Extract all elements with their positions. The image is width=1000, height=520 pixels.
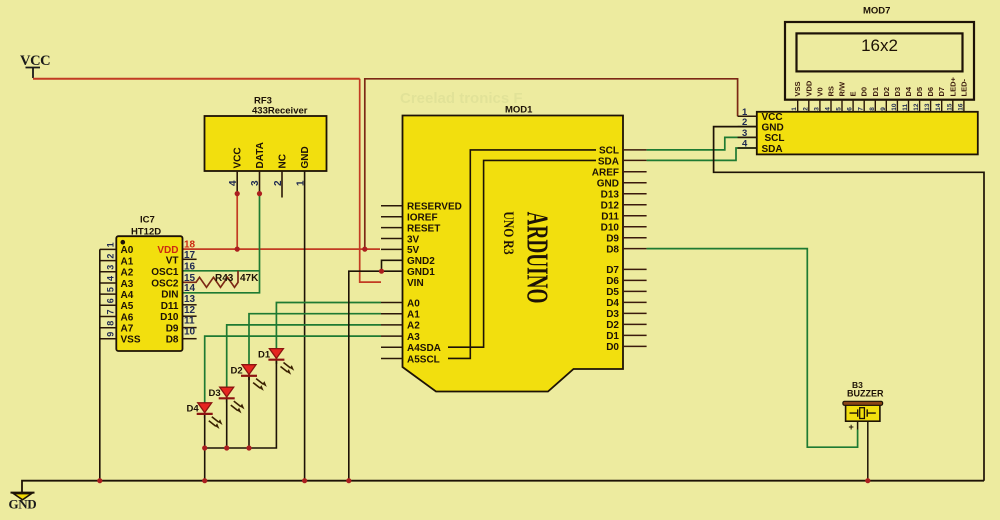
svg-text:GND: GND	[300, 146, 311, 168]
adapter labels	[762, 112, 785, 155]
wire VDD 5V line	[183, 248, 381, 250]
wire LCD GND return	[714, 127, 984, 481]
svg-text:VDD: VDD	[804, 80, 813, 96]
svg-text:R43: R43	[215, 273, 234, 284]
svg-text:9: 9	[880, 107, 887, 111]
svg-text:D11: D11	[601, 211, 619, 222]
svg-text:D10: D10	[160, 312, 179, 323]
svg-text:D13: D13	[601, 190, 620, 201]
HT12D right pin numbers	[184, 240, 196, 338]
svg-text:LED-: LED-	[959, 79, 968, 97]
svg-text:A7: A7	[121, 324, 134, 335]
RF3 pin NC (2)	[273, 154, 289, 197]
svg-text:14: 14	[935, 103, 942, 111]
svg-text:D4: D4	[904, 86, 913, 96]
svg-text:A4SDA: A4SDA	[407, 343, 441, 354]
resistor R43	[183, 271, 260, 288]
svg-text:VIN: VIN	[407, 278, 424, 289]
svg-text:NC: NC	[278, 154, 289, 168]
svg-text:11: 11	[902, 104, 909, 111]
svg-text:VCC: VCC	[762, 112, 783, 123]
wire A3 to LED D4	[205, 336, 381, 402]
svg-text:D2: D2	[882, 87, 891, 97]
svg-text:14: 14	[184, 283, 196, 294]
svg-text:LED+: LED+	[948, 77, 957, 97]
svg-text:12: 12	[184, 305, 196, 316]
svg-text:OSC1: OSC1	[151, 267, 179, 278]
LED D2	[231, 364, 266, 389]
wire A0 to LED D1	[276, 303, 381, 349]
svg-text:D5: D5	[915, 87, 924, 97]
svg-text:6: 6	[847, 107, 854, 111]
svg-text:7: 7	[106, 309, 116, 314]
svg-text:13: 13	[184, 294, 196, 305]
svg-text:A6: A6	[121, 312, 134, 323]
svg-text:D10: D10	[601, 222, 620, 233]
svg-text:D0: D0	[606, 342, 619, 353]
svg-text:47K: 47K	[240, 273, 259, 284]
svg-text:+: +	[849, 422, 854, 432]
svg-text:9: 9	[106, 332, 116, 337]
svg-text:V0: V0	[815, 87, 824, 96]
svg-text:A3: A3	[121, 279, 134, 290]
svg-text:GND2: GND2	[407, 256, 435, 267]
svg-text:D1: D1	[871, 87, 880, 97]
svg-text:D11: D11	[161, 301, 179, 312]
svg-text:RESET: RESET	[407, 223, 440, 234]
svg-text:11: 11	[184, 316, 195, 327]
buzzer B3	[843, 380, 884, 481]
svg-text:SDA: SDA	[598, 156, 619, 167]
svg-text:A5: A5	[121, 301, 134, 312]
svg-text:17: 17	[184, 250, 196, 261]
svg-text:BUZZER: BUZZER	[847, 389, 884, 399]
svg-text:10: 10	[891, 103, 898, 111]
svg-text:1: 1	[742, 107, 748, 118]
RF3 pin DATA (3)	[250, 142, 266, 193]
svg-text:SDA: SDA	[762, 144, 783, 155]
wire D8 to buzzer	[647, 249, 858, 448]
MOD7 pin stubs 1-16	[798, 100, 964, 112]
svg-text:8: 8	[106, 321, 116, 326]
svg-text:5V: 5V	[407, 245, 420, 256]
svg-text:SCL: SCL	[599, 146, 619, 157]
svg-text:A1: A1	[407, 310, 420, 321]
svg-text:12: 12	[913, 103, 920, 111]
I2C adapter block	[757, 112, 978, 155]
svg-text:D3: D3	[606, 309, 619, 320]
svg-text:D9: D9	[606, 233, 619, 244]
svg-text:6: 6	[106, 298, 116, 303]
svg-text:16: 16	[957, 103, 964, 111]
wire SDA to LCD	[647, 148, 757, 160]
wire A1 to LED D2	[249, 314, 381, 365]
svg-text:OSC2: OSC2	[151, 278, 179, 289]
svg-text:GND: GND	[762, 122, 784, 133]
MOD7 pin numbers 1-16	[791, 103, 964, 111]
svg-text:IOREF: IOREF	[407, 213, 438, 224]
RF3 pin VCC (4)	[228, 147, 244, 193]
MOD1 internal wire A5SCL-SCL	[448, 150, 596, 359]
IC7 HT12D decoder	[116, 215, 182, 352]
svg-text:D8: D8	[166, 335, 179, 346]
op module MOD1 Arduino UNO R3	[403, 105, 624, 392]
svg-text:R/W: R/W	[838, 81, 847, 97]
LED D3	[209, 387, 244, 412]
svg-text:D2: D2	[231, 366, 243, 377]
ground symbol	[9, 493, 37, 512]
svg-text:A2: A2	[121, 268, 134, 279]
svg-text:VCC: VCC	[233, 147, 244, 168]
svg-text:AREF: AREF	[592, 168, 619, 179]
svg-text:SCL: SCL	[765, 133, 785, 144]
wire 5V to LCD VCC	[365, 79, 738, 249]
svg-text:A4: A4	[121, 290, 134, 301]
svg-text:D0: D0	[860, 87, 869, 97]
svg-text:10: 10	[184, 327, 196, 338]
svg-text:GND1: GND1	[407, 267, 435, 278]
wire GND2-GND1 link	[349, 260, 403, 480]
svg-text:D4: D4	[606, 298, 619, 309]
svg-text:UNO R3: UNO R3	[501, 211, 518, 254]
watermark	[400, 90, 523, 107]
wire VCC to VIN	[360, 79, 381, 282]
svg-text:18: 18	[184, 240, 196, 251]
svg-text:VSS: VSS	[121, 335, 141, 346]
svg-text:RESERVED: RESERVED	[407, 202, 462, 213]
svg-text:A5SCL: A5SCL	[407, 354, 440, 365]
svg-text:16: 16	[184, 262, 196, 273]
svg-text:5: 5	[106, 287, 116, 292]
svg-text:D5: D5	[606, 287, 619, 298]
wire A2 to LED D3	[227, 325, 381, 387]
svg-text:ARDUINO: ARDUINO	[520, 212, 555, 304]
svg-text:GND: GND	[597, 179, 619, 190]
svg-text:A0: A0	[121, 245, 134, 256]
svg-text:7: 7	[858, 107, 865, 111]
MOD1 internal wire A4SDA-SDA	[448, 160, 596, 347]
wire DATA to DIN	[183, 194, 260, 293]
svg-text:D8: D8	[606, 244, 619, 255]
LED D4	[187, 403, 222, 428]
adapter pin stubs 1-4	[738, 116, 757, 148]
ground bus	[22, 481, 984, 493]
svg-text:IC7: IC7	[140, 215, 155, 226]
HT12D right pin stubs	[183, 259, 197, 338]
adapter pin numbers	[742, 107, 748, 150]
svg-text:D6: D6	[926, 87, 935, 97]
svg-text:3: 3	[813, 107, 820, 111]
MOD1 right pin stubs	[623, 150, 647, 347]
svg-text:1: 1	[791, 107, 798, 111]
HT12D right labels	[151, 245, 179, 346]
svg-text:1: 1	[106, 242, 116, 247]
svg-text:3: 3	[106, 265, 116, 270]
node VCC	[20, 53, 50, 78]
svg-text:2: 2	[106, 254, 116, 259]
svg-text:D3: D3	[893, 87, 902, 97]
svg-text:VT: VT	[166, 255, 179, 266]
svg-text:433Receiver: 433Receiver	[252, 106, 308, 117]
svg-text:15: 15	[946, 103, 953, 111]
svg-text:VSS: VSS	[793, 81, 802, 96]
svg-text:A2: A2	[407, 321, 420, 332]
svg-text:13: 13	[924, 103, 931, 111]
RF3 pin GND (1)	[295, 146, 311, 480]
MOD1 left labels	[407, 202, 462, 366]
svg-text:4: 4	[106, 276, 116, 281]
svg-text:15: 15	[184, 273, 196, 284]
svg-text:MOD1: MOD1	[505, 105, 533, 116]
wire RF3 VCC drop	[236, 194, 238, 250]
MOD7 pin labels VSS..LED-	[793, 77, 968, 97]
svg-text:DIN: DIN	[161, 290, 178, 301]
svg-text:2: 2	[802, 107, 809, 111]
wire LED cathode bus	[205, 361, 277, 481]
svg-text:4: 4	[825, 107, 832, 111]
svg-text:D9: D9	[166, 324, 179, 335]
wire OSC1	[183, 270, 260, 272]
svg-text:A3: A3	[407, 332, 420, 343]
svg-text:3V: 3V	[407, 234, 420, 245]
MOD1 left pin stubs	[381, 206, 403, 359]
RF3 receiver block	[205, 96, 327, 172]
svg-text:D7: D7	[937, 87, 946, 97]
LED D1	[258, 348, 293, 373]
svg-text:D6: D6	[606, 276, 619, 287]
svg-text:5: 5	[836, 107, 843, 111]
svg-text:A1: A1	[121, 256, 134, 267]
svg-text:3: 3	[742, 128, 747, 139]
svg-text:16x2: 16x2	[861, 36, 898, 55]
svg-text:MOD7: MOD7	[863, 6, 890, 17]
HT12D left labels	[121, 245, 141, 345]
svg-text:DATA: DATA	[255, 142, 266, 168]
HT12D left pin numbers	[106, 242, 116, 336]
svg-text:D12: D12	[601, 201, 620, 212]
module MOD7 LCD 16x2	[785, 6, 974, 100]
MOD1 right labels	[592, 146, 620, 354]
svg-text:D7: D7	[606, 265, 619, 276]
svg-text:A0: A0	[407, 298, 420, 309]
svg-text:GND: GND	[9, 497, 37, 512]
wire HT12D ground bus	[99, 249, 101, 480]
svg-text:D2: D2	[606, 320, 619, 331]
svg-text:RS: RS	[827, 86, 836, 96]
wire VCC rail	[33, 78, 360, 80]
HT12D left pins 1-9	[100, 249, 117, 338]
wire SCL to LCD	[647, 137, 757, 150]
svg-text:D1: D1	[606, 331, 619, 342]
svg-text:8: 8	[869, 107, 876, 111]
svg-text:4: 4	[742, 139, 748, 150]
svg-text:E: E	[849, 91, 858, 96]
